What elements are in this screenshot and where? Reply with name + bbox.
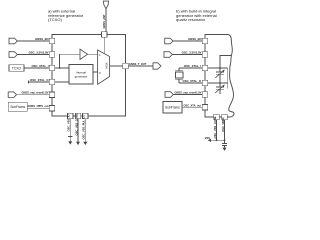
wire VDD_OSC down [224, 120, 226, 144]
svg-text:GNSS_EN: GNSS_EN [35, 37, 48, 41]
connector J3 GNSS_exp_reset [8, 92, 16, 98]
label OSC_3.3V/1.8V [29, 51, 49, 55]
wire to output connector [128, 65, 153, 67]
wire MUX output [110, 65, 123, 67]
varactor C2 arrow [215, 85, 224, 93]
connector J1 GNSS_EN [9, 38, 17, 44]
wire GNSS_EN [17, 40, 49, 42]
wire buffer to MUX input 1 [88, 53, 98, 55]
pin OSC_3.3V/1.8V [49, 52, 55, 58]
MUX U4 [98, 50, 110, 84]
wire GNSS_1PPS_out [27, 107, 49, 109]
svg-text:MUX: MUX [104, 62, 108, 68]
wire XTAL_O internal [208, 82, 228, 84]
buffer amp U2 (triangle) [80, 49, 88, 59]
connector J2 OSC_3.3V/1.8V [9, 52, 17, 58]
crystal X1 [178, 68, 180, 71]
caption a [48, 8, 84, 22]
label OSC_XTAL_O [30, 78, 49, 82]
pin OSC_XTAL_I [202, 65, 208, 71]
label OSC_XTAL_O [183, 79, 202, 83]
svg-text:OSC_3.3V/1.8V: OSC_3.3V/1.8V [29, 51, 49, 55]
antenna ANT [103, 1, 108, 9]
TCXO G1 box [9, 65, 24, 71]
wire VDD_IO down [69, 119, 71, 142]
wire OSC_XTAL_O [179, 82, 202, 84]
svg-text:TCXO: TCXO [12, 67, 22, 71]
wire right link [227, 68, 229, 89]
svg-text:quartz resonator: quartz resonator [176, 17, 206, 22]
label OSC_VSS_PLL (vertical) [82, 115, 86, 140]
svg-text:OSC_XTA_out: OSC_XTA_out [183, 103, 201, 107]
svg-text:GNSS_1PPS_out: GNSS_1PPS_out [28, 104, 49, 108]
wire OSC_3.3V/1.8V [172, 54, 202, 56]
svg-text:VSS: VSS [205, 136, 210, 140]
label VSS [205, 136, 210, 140]
ground arrow 1 [68, 141, 72, 144]
svg-text:GNSS_exp_reset/1.8V: GNSS_exp_reset/1.8V [175, 91, 202, 95]
capacitor C3 [222, 143, 227, 145]
label OSC_VSS_OSC (vertical) [213, 116, 217, 138]
connector J5 GNSS_EN [165, 38, 173, 44]
label GNSS_TP_OUT [129, 62, 147, 66]
wire OSC_XTAL_I [24, 67, 49, 69]
pin OSC_VDD_IO (bottom 1) [68, 113, 74, 119]
label OSC_XTAL_I [184, 64, 201, 68]
connector J4 output [153, 63, 161, 69]
label GNSS_exp_reset/1.8V [175, 91, 202, 95]
wire VSS_IO down [77, 119, 79, 142]
internal generator box U3 [69, 65, 93, 85]
pin OSC_XTA_out [202, 105, 208, 111]
wire GNSS_exp_reset/1.8V [17, 94, 50, 96]
pin OSC_XTAL_O [202, 80, 208, 86]
pin OSC_XTAL_O [49, 79, 55, 85]
label OSC_XTAL_I [31, 64, 48, 68]
label OSC_VDD (vertical) [221, 117, 225, 132]
wire GNSS_exp_reset/1.8V [173, 94, 202, 96]
wire OSC_XTAL_I into generator [55, 67, 69, 69]
ground arrow 2 [76, 142, 80, 145]
pin OSC_VSS (bottom 3) [83, 113, 89, 119]
label OSC_VSS_IO (vertical) [74, 113, 78, 135]
label OSC_XTA_out [183, 103, 201, 107]
svg-text:SubFrams: SubFrams [165, 105, 180, 109]
pin OSC_VSS_IO (bottom 2) [75, 113, 81, 119]
label OSC_3.3V/1.8V [182, 51, 202, 55]
pin OSC_XTAL_I [49, 65, 55, 71]
wire VSS down [84, 119, 86, 142]
svg-text:GNSS_EN: GNSS_EN [188, 37, 201, 41]
svg-text:OSC_3.3V/1.8V: OSC_3.3V/1.8V [182, 51, 202, 55]
label GNSS_1PPS_out [28, 104, 49, 108]
pin OSC_VSS_OSC (bottom 1) [214, 114, 220, 120]
rail segment [219, 74, 221, 87]
ground arrow 3 [83, 142, 87, 145]
ground arrow below C3 [223, 148, 227, 151]
VSS arrow left [208, 139, 211, 142]
svg-text:OSC_VSS_CORE: OSC_VSS_CORE [213, 116, 217, 138]
IC U5 body with torn edge [205, 35, 234, 118]
pin OSC_3.3V/1.8V [202, 52, 208, 58]
node dots [216, 139, 218, 141]
label OSC_VDD_IO (vertical) [67, 114, 71, 131]
stub OSC_XTAL_O (n.c.) [28, 80, 30, 83]
pin GNSS_TP_OUT (right edge) [123, 63, 129, 68]
svg-text:OSC_XTAL_O: OSC_XTAL_O [30, 78, 49, 82]
IC U1 body (left diagram) [52, 35, 126, 117]
node dot XTAL_O/rail [219, 82, 221, 84]
wire XTAL_I riser to buffer [60, 54, 80, 68]
svg-text:OSC_XTAL_O: OSC_XTAL_O [183, 79, 202, 83]
svg-text:GNSS_ANT: GNSS_ANT [102, 14, 106, 29]
pin GNSS_1PPS_out [49, 105, 55, 111]
wire GNSS_EN [173, 40, 202, 42]
svg-text:GNSS_T_OUT: GNSS_T_OUT [129, 62, 147, 66]
varactor C1 plates [216, 71, 224, 73]
pin OSC_VDD_OSC (bottom 2) [222, 114, 228, 120]
rail end [219, 89, 221, 94]
connector J6 OSC_3.3V/1.8V [164, 52, 172, 58]
wire OSC_XTAL_O into generator [55, 81, 69, 83]
svg-text:GNSS_exp_reset/1.8V: GNSS_exp_reset/1.8V [22, 91, 49, 95]
SubFrams box A2 [163, 102, 182, 114]
SubFrams box A1 [8, 102, 27, 111]
svg-text:OSC_VDD3: OSC_VDD3 [221, 117, 225, 132]
net label GNSS_ANT (vertical) [102, 14, 106, 29]
rail to torn edge [220, 56, 232, 72]
wire OSC_XTAL_I [179, 67, 202, 69]
wire select (pin to MUX) [103, 37, 105, 53]
label GNSS_exp_reset/1.8V [22, 91, 49, 95]
svg-text:SubFrams: SubFrams [10, 105, 25, 109]
pin GNSS_EN [49, 38, 55, 44]
wire generator to MUX input 0 [93, 71, 98, 73]
svg-text:OSC_XTAL_I: OSC_XTAL_I [31, 64, 48, 68]
svg-text:OSC_VSS_CORE: OSC_VSS_CORE [74, 113, 78, 135]
bar on VDD_IO wire [68, 136, 73, 138]
svg-text:(TCXO): (TCXO) [48, 17, 62, 22]
svg-text:OSC_XTAL_I: OSC_XTAL_I [184, 64, 201, 68]
svg-text:generator: generator [75, 74, 88, 78]
wire VSS horizontal [211, 139, 225, 141]
pin GNSS_exp_reset [202, 92, 208, 98]
node junction dot [59, 67, 61, 69]
connector J7 GNSS_exp_reset [165, 92, 173, 98]
label GNSS_EN [35, 37, 48, 41]
wire XTAL_I internal [208, 67, 228, 69]
label GNSS_EN [188, 37, 201, 41]
node dot XTAL_I/rail [219, 67, 221, 69]
caption b [176, 8, 217, 22]
wire OSC_XTA_out [182, 106, 202, 108]
svg-text:OSC_VSS_IO: OSC_VSS_IO [67, 114, 71, 131]
wire VSS_OSC down [216, 120, 218, 141]
pin GNSS_exp_reset [49, 92, 55, 98]
svg-text:OSC_VSS_PLL_CO: OSC_VSS_PLL_CO [82, 115, 86, 140]
wire antenna to pin [105, 9, 107, 32]
pin GNSS_EN [202, 38, 208, 44]
varactor C2 plates [216, 86, 224, 88]
wire OSC_3.3V/1.8V [17, 54, 49, 56]
pin GNSS_ANT (top) [102, 32, 108, 38]
varactor C1 arrow [215, 70, 224, 78]
